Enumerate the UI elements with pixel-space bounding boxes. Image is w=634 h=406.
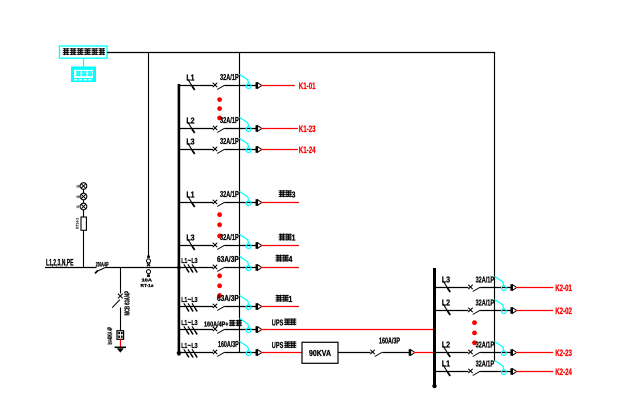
svg-text:HY: HY — [77, 205, 82, 209]
red dots continuation group 1 — [217, 97, 222, 102]
svg-text:L1: L1 — [181, 297, 187, 304]
wire branch K2-23 to arrow — [480, 352, 511, 354]
busbar right distribution (UPS) — [433, 268, 436, 387]
arrow outgoing KT1 — [256, 303, 258, 310]
wire lamp column — [83, 186, 85, 268]
fuse link FU1 monitor tap — [147, 256, 151, 277]
CT monitor hook branch K1-24 — [240, 138, 252, 152]
wire branch KT1 segment from busbar — [180, 306, 213, 308]
svg-text:160A/4P+: 160A/4P+ — [204, 319, 229, 328]
CT monitor hook branch K2-01 — [495, 276, 507, 290]
svg-text:10A: 10A — [142, 277, 153, 282]
wire monitoring module to comm submodule — [83, 58, 85, 67]
wire branch UPS-BYPASS to arrow — [225, 329, 257, 331]
wire feeder UPS-BYPASS (red) — [261, 329, 435, 331]
wire monitor drop to main bus — [148, 53, 150, 257]
wire feeder K1-01 (red) — [261, 85, 295, 87]
svg-text:63A/3P: 63A/3P — [217, 254, 239, 264]
wire main bus right segment — [105, 267, 178, 269]
svg-text:L3: L3 — [191, 297, 197, 304]
switch QS1 main isolator — [95, 268, 105, 274]
svg-text:32A/1P: 32A/1P — [476, 339, 495, 349]
wire UPS output to right busbar (red) — [414, 352, 434, 354]
CT monitor hook branch K2-02 — [495, 299, 507, 313]
node phase marks L1~L3 branch UPS-IN — [184, 349, 197, 357]
svg-text:K1-24: K1-24 — [299, 145, 316, 155]
indicator lamp HL2 — [80, 193, 87, 200]
svg-text:L3: L3 — [186, 234, 195, 243]
wire branch UPS-IN to arrow — [225, 352, 257, 354]
svg-text:In=40KA 4P: In=40KA 4P — [107, 327, 114, 345]
wire branch K2-01 from right busbar — [436, 287, 468, 289]
value label fuse FU2 — [76, 218, 80, 229]
svg-text:63A/3P: 63A/3P — [217, 293, 239, 303]
wire branch UPS-IN segment from busbar — [180, 352, 213, 354]
arrow outgoing K1-23 — [256, 125, 258, 132]
breaker KT4 63A/3P — [213, 265, 225, 272]
wire UPS output — [338, 352, 371, 354]
breaker K2-01 32A/1P — [468, 285, 480, 292]
svg-text:90KVA: 90KVA — [309, 348, 331, 358]
wire branch KT1 to arrow — [225, 306, 257, 308]
wire branch BY1 segment from busbar — [180, 245, 213, 247]
arrow UPS output — [409, 349, 411, 356]
red dots continuation group 2 — [217, 212, 222, 217]
arrow outgoing BY1 — [256, 242, 258, 249]
svg-text:K2-24: K2-24 — [555, 367, 572, 377]
arrow outgoing K2-02 — [510, 307, 512, 314]
arrow outgoing BY3 — [256, 199, 258, 206]
CT monitor hook branch KT1 — [240, 295, 252, 309]
node phase mark L3 branch K1-24 — [187, 143, 194, 155]
svg-text:4: 4 — [289, 254, 293, 264]
svg-text:160A/3P: 160A/3P — [379, 337, 400, 346]
node phase mark L2 branch K2-02 — [443, 304, 450, 316]
svg-text:L2: L2 — [442, 299, 451, 308]
svg-text:32A/1P: 32A/1P — [476, 274, 495, 284]
svg-text:HR: HR — [77, 185, 82, 189]
wire feeder K2-01 (red) — [516, 287, 554, 289]
wire main bus left segment — [45, 267, 97, 269]
breaker KT1 63A/3P — [213, 304, 225, 311]
junction busbar bottom — [177, 351, 181, 355]
svg-text:MCB 63A/4P: MCB 63A/4P — [123, 291, 132, 316]
wire breaker to SPD — [120, 308, 122, 331]
node phase mark L1 branch K1-01 — [187, 79, 194, 91]
svg-text:L2: L2 — [186, 117, 195, 126]
wire feeder K1-24 (red) — [261, 149, 298, 151]
svg-text:K2-23: K2-23 — [555, 348, 572, 358]
svg-text:1: 1 — [292, 233, 296, 243]
transformer/UPS T1 90KVA — [302, 342, 338, 363]
busbar left distribution — [178, 84, 181, 356]
wire feeder KT4 (red) — [261, 267, 299, 269]
arrow outgoing UPS-IN — [256, 349, 258, 356]
wire branch K2-02 to arrow — [480, 310, 511, 312]
breaker QF0 MCB 63A/4P — [112, 294, 123, 308]
junction main bus to busbar — [177, 266, 181, 270]
node phase mark L1 branch K2-24 — [443, 365, 450, 377]
svg-text:L3: L3 — [191, 258, 197, 265]
svg-text:L1,2,3,N,PE: L1,2,3,N,PE — [46, 257, 74, 267]
CT monitor hook branch BY1 — [240, 234, 252, 248]
node phase mark L1 branch BY3 — [187, 196, 194, 208]
svg-text:1: 1 — [289, 294, 293, 304]
breaker BY3 32A/1P — [213, 200, 225, 207]
wire feeder K2-02 (red) — [516, 310, 554, 312]
fuse FU2 lamp circuit — [81, 217, 86, 230]
wire branch K1-23 to arrow — [225, 128, 257, 130]
CT monitor hook branch BY3 — [240, 191, 252, 205]
node phase marks L1~L3 branch UPS-BYPASS — [184, 326, 197, 334]
svg-text:3: 3 — [292, 189, 296, 199]
red dots continuation group 4 — [472, 320, 477, 325]
value label phase L1~L3 — [181, 320, 197, 327]
svg-text:32A/1P: 32A/1P — [220, 232, 239, 242]
wire SPD branch drop — [120, 268, 122, 294]
value label phase L1~L3 — [181, 343, 197, 350]
breaker UPS-BYPASS — [213, 327, 225, 334]
value label MCB 63A/4P — [123, 291, 132, 316]
svg-text:L3: L3 — [191, 343, 197, 350]
breaker K1-24 32A/1P — [213, 147, 225, 154]
svg-text:UPS: UPS — [272, 341, 284, 350]
breaker K2-02 32A/1P — [468, 308, 480, 315]
wire branch K1-24 segment from busbar — [180, 149, 213, 151]
wire branch BY1 to arrow — [225, 245, 257, 247]
breaker K2-24 32A/1P — [468, 369, 480, 376]
node phase mark L3 branch K2-01 — [443, 281, 450, 293]
svg-text:HG: HG — [77, 195, 82, 199]
svg-text:32A/1P: 32A/1P — [476, 358, 495, 368]
value label SPD In=40KA 4P — [107, 327, 114, 345]
wire branch K1-24 to arrow — [225, 149, 257, 151]
wire branch K2-24 to arrow — [480, 371, 511, 373]
wire feeder K2-23 (red) — [516, 352, 554, 354]
CT monitor hook branch UPS-BYPASS — [240, 318, 252, 332]
wire branch K1-01 to arrow — [225, 85, 257, 87]
CT monitor hook branch K2-24 — [495, 360, 507, 374]
svg-text:L3: L3 — [442, 276, 451, 285]
node load label UPS输入 — [272, 341, 297, 350]
CT monitor hook branch K1-23 — [240, 117, 252, 131]
node load label 空调1 — [276, 294, 293, 304]
svg-text:L1: L1 — [181, 258, 187, 265]
wire feeder KT1 (red) — [261, 306, 299, 308]
wire monitor bus horizontal — [107, 52, 495, 54]
svg-text:K1-23: K1-23 — [299, 124, 316, 134]
wire monitor drop left branch group — [239, 53, 241, 353]
svg-text:RT-1s: RT-1s — [141, 283, 154, 288]
arrow outgoing UPS-BYPASS — [256, 326, 258, 333]
wire branch KT4 segment from busbar — [180, 267, 213, 269]
node phase marks L1~L3 branch KT4 — [184, 264, 197, 272]
svg-text:K1-01: K1-01 — [299, 81, 316, 91]
svg-text:L1: L1 — [181, 343, 187, 350]
node load label 备用3 — [279, 189, 296, 199]
indicator lamp HL3 — [80, 203, 87, 210]
breaker K1-23 32A/1P — [213, 126, 225, 133]
svg-text:32A/1P: 32A/1P — [220, 115, 239, 125]
arrow outgoing K1-24 — [256, 146, 258, 153]
wire branch K1-23 segment from busbar — [180, 128, 213, 130]
wire branch UPS-BYPASS segment from busbar — [180, 329, 213, 331]
wire feeder K2-24 (red) — [516, 371, 554, 373]
junction right busbar bottom — [432, 384, 436, 388]
arrow outgoing K2-24 — [510, 368, 512, 375]
value label fuse link — [141, 277, 154, 288]
node load label 空调4 — [276, 254, 293, 264]
breaker BY1 32A/1P — [213, 243, 225, 250]
wire branch KT4 to arrow — [225, 267, 257, 269]
breaker UPS output 160A/3P — [370, 350, 382, 357]
arrow outgoing K1-01 — [256, 82, 258, 89]
node load label UPS旁路 — [272, 318, 297, 327]
svg-text:L3: L3 — [186, 138, 195, 147]
CT monitor hook branch K2-23 — [495, 341, 507, 355]
breaker K2-23 32A/1P — [468, 350, 480, 357]
svg-text:L1: L1 — [186, 191, 195, 200]
comm submodule U2 — [72, 67, 96, 82]
node load label 备用1 — [279, 233, 296, 243]
wire branch K2-23 from right busbar — [436, 352, 468, 354]
wire branch K1-01 segment from busbar — [180, 85, 213, 87]
svg-text:32A/1P: 32A/1P — [476, 297, 495, 307]
wire feeder K1-23 (red) — [261, 128, 298, 130]
svg-text:L1: L1 — [442, 360, 451, 369]
CT monitor hook branch KT4 — [240, 256, 252, 270]
arrow outgoing K2-23 — [510, 349, 512, 356]
arrow outgoing KT4 — [256, 264, 258, 271]
svg-text:RT14-1: RT14-1 — [76, 218, 80, 229]
node phase mark L3 branch BY1 — [187, 239, 194, 251]
svg-text:K2-01: K2-01 — [555, 283, 572, 293]
value label phase L1~L3 — [181, 258, 197, 265]
svg-text:L1: L1 — [181, 320, 187, 327]
breaker UPS-IN 160A/3P — [213, 350, 225, 357]
svg-text:L2: L2 — [442, 341, 451, 350]
value label phase L1~L3 — [181, 297, 197, 304]
CT monitor hook branch UPS-IN — [240, 341, 252, 355]
wire feeder UPS-IN (red) — [261, 352, 302, 354]
ground symbol — [115, 347, 126, 352]
svg-text:32A/1P: 32A/1P — [220, 136, 239, 146]
red dots continuation group 3 — [217, 273, 222, 278]
wire branch K2-24 from right busbar — [436, 371, 468, 373]
CT monitor hook branch K1-01 — [240, 74, 252, 88]
wire branch BY3 segment from busbar — [180, 202, 213, 204]
svg-text:160A/3P: 160A/3P — [218, 339, 239, 349]
wire feeder BY1 (red) — [261, 245, 299, 247]
wire breaker to arrow — [382, 352, 409, 354]
wire feeder BY3 (red) — [261, 202, 299, 204]
monitoring module U1 智能监控模块 — [60, 46, 108, 58]
arrow outgoing K2-01 — [510, 284, 512, 291]
svg-text:32A/1P: 32A/1P — [220, 189, 239, 199]
wire SPD to ground (red) — [120, 339, 122, 347]
node phase mark L2 branch K2-23 — [443, 346, 450, 358]
svg-text:UPS: UPS — [272, 318, 284, 327]
surge protector SPD1 — [117, 331, 124, 340]
wire branch BY3 to arrow — [225, 202, 257, 204]
breaker K1-01 32A/1P — [213, 83, 225, 90]
wire branch K2-02 from right busbar — [436, 310, 468, 312]
svg-text:32A/1P: 32A/1P — [220, 72, 239, 82]
value label 160A/4P+挂锁 — [204, 319, 242, 328]
svg-text:L1: L1 — [186, 74, 195, 83]
indicator lamp HL1 — [80, 183, 87, 190]
svg-text:K2-02: K2-02 — [555, 306, 572, 316]
wire branch K2-01 to arrow — [480, 287, 511, 289]
node phase mark L2 branch K1-23 — [187, 122, 194, 134]
svg-text:L3: L3 — [191, 320, 197, 327]
wire monitor drop right branch group — [494, 53, 496, 362]
node phase marks L1~L3 branch KT1 — [184, 303, 197, 311]
